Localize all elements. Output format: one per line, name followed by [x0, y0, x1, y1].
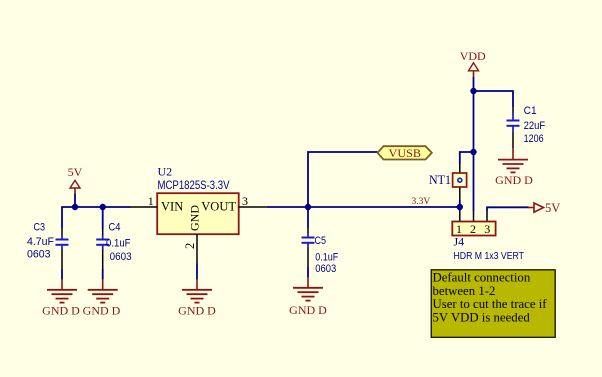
svg-text:22uF: 22uF	[524, 120, 546, 132]
wire 3.3V rail	[267, 206, 460, 208]
port arrow 5V (right)	[529, 201, 561, 215]
ground GND D (C4)	[83, 279, 121, 318]
svg-text:4.7uF: 4.7uF	[27, 236, 54, 248]
ground GND D (C3)	[42, 279, 80, 318]
svg-text:C4: C4	[109, 221, 121, 233]
svg-text:3: 3	[484, 222, 490, 236]
svg-text:GND D: GND D	[178, 304, 216, 318]
svg-text:0603: 0603	[27, 249, 51, 261]
pin 3 of U2	[239, 194, 267, 208]
regulator U2 body	[157, 193, 239, 234]
junction dot at C4	[100, 204, 106, 210]
power symbol VDD	[460, 49, 486, 77]
svg-text:0.1uF: 0.1uF	[106, 237, 131, 249]
wire to C1	[474, 91, 514, 107]
svg-text:3: 3	[242, 194, 248, 208]
junction dot at C5	[305, 204, 311, 210]
wire NT1 to J4 pin1	[459, 200, 461, 211]
svg-text:5V VDD is needed: 5V VDD is needed	[433, 311, 531, 325]
svg-text:VOUT: VOUT	[201, 200, 236, 214]
svg-text:5V: 5V	[68, 165, 83, 179]
wire C3 drop	[61, 206, 63, 228]
svg-text:5V: 5V	[545, 201, 560, 215]
svg-text:between 1-2: between 1-2	[433, 284, 496, 298]
svg-text:0.1uF: 0.1uF	[315, 252, 338, 264]
note box	[431, 270, 555, 338]
svg-text:1206: 1206	[524, 133, 544, 145]
svg-text:GND D: GND D	[495, 173, 533, 187]
ground GND D (C5)	[289, 277, 327, 317]
capacitor C3	[56, 228, 69, 269]
capacitor C1	[507, 107, 520, 148]
wire C5 to ground	[307, 267, 309, 278]
ground GND D (C1)	[495, 148, 533, 187]
svg-text:GND D: GND D	[83, 304, 121, 318]
svg-text:3.3V: 3.3V	[412, 197, 431, 207]
svg-text:GND D: GND D	[42, 304, 80, 318]
svg-text:MCP1825S-3.3V: MCP1825S-3.3V	[158, 178, 230, 192]
svg-text:0603: 0603	[315, 263, 336, 275]
capacitor C4	[96, 229, 109, 269]
junction dot NT1 branch	[470, 149, 476, 155]
pin 2 of U2	[183, 234, 197, 263]
wire VDD stem	[473, 77, 475, 152]
svg-text:U2: U2	[158, 165, 173, 179]
wire 5V stem	[74, 194, 76, 208]
wire U2 pin2 to ground	[196, 264, 198, 280]
wire VUSB riser	[308, 152, 378, 207]
wire C4 to ground	[102, 269, 104, 280]
wire NT1 branch	[460, 152, 474, 164]
header J4 body	[452, 222, 495, 237]
svg-text:C5: C5	[315, 235, 327, 247]
junction dot J4 pin1	[457, 204, 463, 210]
pin line through NT1	[459, 164, 461, 200]
svg-text:HDR M 1x3 VERT: HDR M 1x3 VERT	[454, 250, 525, 262]
wire C3 to ground	[61, 269, 63, 280]
wire horizontal left rail	[62, 206, 131, 208]
power flag VUSB	[378, 146, 432, 160]
ground GND D (U2)	[178, 279, 216, 318]
svg-text:2: 2	[470, 222, 476, 236]
svg-text:1: 1	[148, 194, 154, 208]
svg-text:VIN: VIN	[161, 200, 183, 214]
svg-text:GND D: GND D	[289, 303, 327, 317]
svg-text:2: 2	[183, 243, 197, 249]
svg-text:Default connection: Default connection	[433, 270, 531, 284]
wire C4 drop	[102, 207, 104, 229]
svg-text:NT1: NT1	[429, 173, 451, 187]
wire J4 pin3 riser and 5V feed	[487, 207, 529, 211]
svg-text:VUSB: VUSB	[389, 146, 422, 160]
svg-text:C3: C3	[34, 221, 46, 233]
svg-text:C1: C1	[524, 105, 537, 117]
svg-text:J4: J4	[454, 235, 465, 249]
pin stubs of J4	[460, 211, 487, 222]
svg-text:VDD: VDD	[460, 49, 486, 63]
net tie NT1	[453, 173, 467, 187]
pin 1 of U2	[131, 194, 158, 208]
wire VDD down to J4 pin2 (already drawn above to 152); segment 152-211	[473, 152, 475, 211]
junction dot at 5V	[72, 204, 78, 210]
svg-text:GND: GND	[188, 205, 202, 231]
capacitor C5	[302, 228, 315, 267]
svg-text:0603: 0603	[110, 251, 132, 263]
junction dot VDD/C1	[470, 88, 476, 94]
power symbol 5V (left)	[68, 165, 83, 194]
svg-text:User to cut the trace if: User to cut the trace if	[433, 297, 548, 311]
wire C5 drop	[307, 207, 309, 228]
